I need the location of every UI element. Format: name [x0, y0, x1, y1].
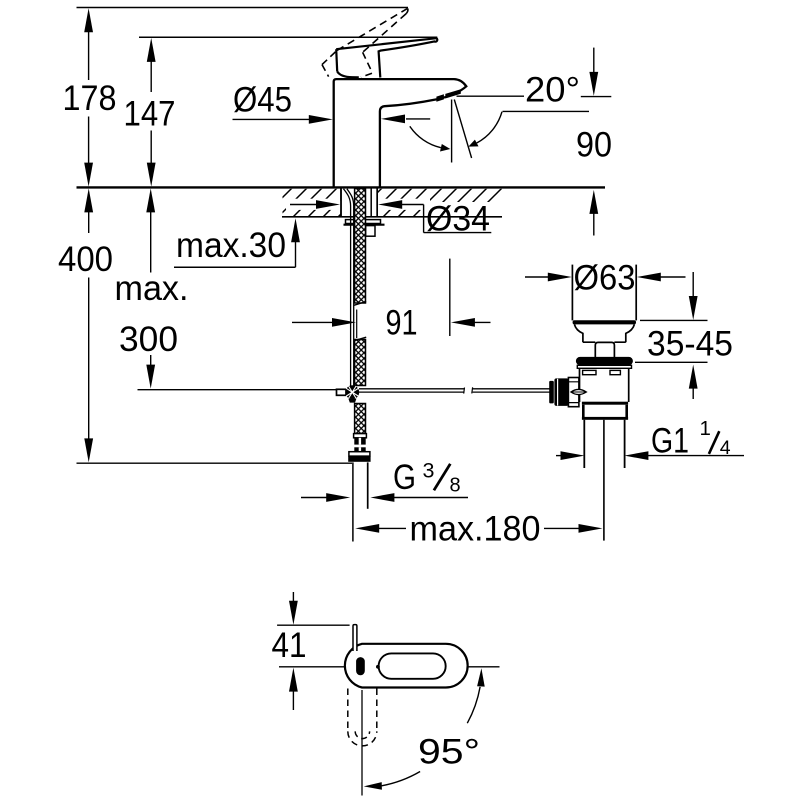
- top view: center slot (black): [356, 657, 365, 675]
- top view: lever blade edge-on: [353, 625, 357, 651]
- svg-text:147: 147: [124, 94, 176, 133]
- G1 1/4 dim right arrow: [646, 455, 744, 457]
- G3/8 dim left arrow: [301, 497, 328, 499]
- union nut top: [349, 452, 370, 456]
- handle raised body left edge: [322, 65, 329, 77]
- water stream 20deg line: [454, 100, 471, 159]
- D34 leader: [424, 205, 492, 233]
- junction lower cone: [348, 399, 356, 403]
- handle lever (solid, rest position): [336, 38, 437, 77]
- 91 dim left arrow: [292, 321, 334, 323]
- hose section2 slanted start: [354, 337, 366, 341]
- pop-up rod (vertical, from faucet): [344, 189, 354, 386]
- supply pipe left wall / extension: [352, 462, 354, 541]
- D63 dim right arrow: [661, 276, 686, 278]
- top view: vertical centerline: [361, 690, 363, 796]
- 95deg arc right arrowhead: [477, 668, 485, 686]
- drain body slot right: [610, 370, 620, 374]
- svg-text:Ø63: Ø63: [574, 259, 636, 298]
- dimension max.300 line: [150, 211, 152, 366]
- svg-text:8: 8: [450, 474, 461, 496]
- drain flange under seal: [577, 365, 631, 368]
- handle raised (dashed) blade upper edge: [337, 8, 408, 50]
- white mask for D34 dim line through hatching: [286, 199, 340, 210]
- drain flange cylinder right wall: [635, 265, 637, 321]
- water stream vertical line: [451, 100, 453, 163]
- 95deg arc left segment: [382, 772, 421, 786]
- faucet body outline: [334, 79, 467, 187]
- svg-text:Ø34: Ø34: [426, 200, 490, 239]
- mounting washer under deck: [346, 220, 381, 224]
- svg-text:35-45: 35-45: [647, 325, 733, 364]
- max180 dim left arrow: [376, 527, 406, 529]
- rod collar on drain: [568, 378, 579, 407]
- 90 bottom arrow: [593, 213, 595, 236]
- svg-text:20°: 20°: [525, 70, 580, 109]
- svg-text:90: 90: [576, 125, 612, 164]
- handle raised body right edge: [361, 52, 372, 77]
- drain centerline: [603, 420, 605, 541]
- dimension 178 line: [88, 31, 90, 164]
- svg-text:G: G: [393, 458, 416, 497]
- top view: small dot: [376, 665, 380, 669]
- 35-45 bottom arrow: [692, 387, 694, 399]
- deck hole left wall: [340, 189, 342, 217]
- 95deg arc left arrowhead: [364, 782, 382, 790]
- supply hose section 2 (braided): [355, 340, 366, 386]
- svg-text:3: 3: [423, 459, 435, 483]
- drain flange cylinder left wall: [571, 265, 573, 321]
- dimension 147 line: [150, 60, 152, 164]
- top reference line (handle raised height): [77, 7, 409, 9]
- drain upper body walls: [580, 368, 629, 402]
- deck hole walls redraw: [341, 189, 377, 217]
- svg-text:91: 91: [386, 304, 418, 343]
- handle body left edge: [336, 49, 337, 71]
- max30 leader vertical: [295, 240, 297, 267]
- drain bell skirt right: [626, 324, 635, 342]
- D34 dim line left: [290, 204, 318, 206]
- stream angle arc right: [477, 112, 502, 143]
- top view: handle rotated dashed left line: [347, 689, 349, 732]
- svg-text:Ø45: Ø45: [233, 81, 292, 120]
- countertop deck hatching right: [378, 189, 503, 217]
- handle raised blade lower edge: [363, 14, 407, 53]
- svg-text:1: 1: [700, 417, 711, 440]
- stream angle arc left arrowhead: [440, 144, 450, 152]
- G1 1/4 dim left arrow: [556, 455, 562, 457]
- drain O-ring seal (black): [576, 357, 633, 365]
- stream angle arc right arrowhead: [468, 140, 478, 147]
- drain tail section walls: [583, 405, 626, 418]
- top view: handle rotated dashed right line: [376, 689, 378, 732]
- rod junction ball: [345, 385, 359, 399]
- drain body bottom thick line: [582, 402, 628, 405]
- mounting nut flange line: [344, 224, 385, 226]
- 20deg leader line: [503, 110, 590, 112]
- second reference line (handle normal height): [139, 36, 437, 38]
- top view: 41 dim top arrow: [292, 592, 294, 602]
- top view: handle rotated dashed inner cap: [355, 731, 369, 738]
- rod end lens (pivot): [571, 389, 587, 394]
- 35-45 top arrow: [692, 272, 694, 297]
- deck bottom line: [282, 216, 502, 218]
- max180 dim right arrow: [544, 527, 580, 529]
- handle raised body top-left edge: [322, 50, 337, 64]
- deck hole right wall: [376, 189, 378, 217]
- drain tailpipe walls: [584, 420, 624, 468]
- svg-text:max.180: max.180: [410, 510, 541, 549]
- 35-45 bottom reference line: [635, 361, 708, 363]
- bottom reference line (400 end): [77, 462, 353, 464]
- top view: handle rotated dashed bottom cap: [348, 731, 377, 746]
- 91 right extension line: [449, 259, 451, 336]
- countertop deck hatching left: [283, 189, 341, 217]
- svg-text:95°: 95°: [418, 733, 480, 772]
- svg-text:300: 300: [119, 320, 178, 359]
- faucet shank wall in hole: [370, 189, 372, 217]
- hose centerline tick in gap: [356, 310, 358, 339]
- dimension 400 line: [88, 211, 90, 440]
- top view: horizontal centerline left: [279, 666, 354, 668]
- union nut black body: [348, 456, 370, 461]
- D63 dim left arrow: [525, 276, 549, 278]
- svg-text:max.30: max.30: [176, 226, 286, 265]
- rod junction clamp stub: [337, 389, 347, 395]
- svg-text:400: 400: [58, 240, 113, 279]
- G3/8 dim right arrow: [392, 497, 469, 499]
- supply pipe right wall: [367, 462, 369, 508]
- handle raised blade tip: [406, 8, 408, 13]
- supply hose section 1 (braided): [355, 189, 366, 304]
- rod break end ticks: [464, 387, 473, 393]
- top view: horizontal centerline right: [456, 666, 500, 668]
- stream angle arc left: [410, 126, 441, 147]
- deck top line: [77, 186, 606, 188]
- svg-text:41: 41: [272, 626, 307, 665]
- drain bell skirt left: [574, 324, 583, 342]
- supply hose section 3 (braided): [355, 404, 366, 434]
- drain flange bottom thick band: [573, 320, 636, 324]
- 20deg baseline left: [457, 95, 525, 97]
- pop-up rod reference line (max300 end): [138, 389, 337, 391]
- max30 underline: [174, 266, 296, 268]
- 35-45 top reference line: [640, 319, 708, 321]
- rod adjusting knob (knurled, black): [549, 381, 554, 404]
- hose section1 slanted end: [354, 302, 366, 306]
- popup rod horizontal (to drain): [359, 389, 550, 392]
- 91 dim right arrow: [474, 321, 491, 323]
- handle escutcheon chin: [337, 71, 359, 77]
- top view: handle inner outline: [379, 653, 446, 678]
- D45 dim right arrow: [406, 118, 430, 120]
- 95deg arc right segment: [467, 687, 480, 723]
- spout aerator mark 2: [445, 89, 461, 98]
- 20deg baseline right: [581, 96, 612, 98]
- D34 dim line right: [400, 204, 424, 206]
- 20deg down arrow: [593, 48, 595, 72]
- drain body slot left: [583, 370, 596, 374]
- spout aerator mark 1: [436, 94, 444, 101]
- drain bell shoulder lines: [583, 341, 626, 343]
- mounting stud: [366, 226, 375, 237]
- svg-text:G1: G1: [651, 422, 689, 461]
- svg-text:178: 178: [63, 79, 117, 118]
- top view: 41 dim bottom arrow: [292, 691, 294, 710]
- connector black band 1: [354, 438, 365, 445]
- top view: 41 top reference line: [277, 624, 350, 626]
- drain guide block: [595, 342, 614, 357]
- svg-text:max.: max.: [115, 269, 189, 308]
- D45 dim left arrow: [233, 118, 313, 120]
- hose end collar: [354, 434, 367, 438]
- top view: faucet outer outline: [345, 644, 468, 688]
- drain tail section bottom thick line: [582, 417, 628, 420]
- connector black band 2: [354, 447, 365, 451]
